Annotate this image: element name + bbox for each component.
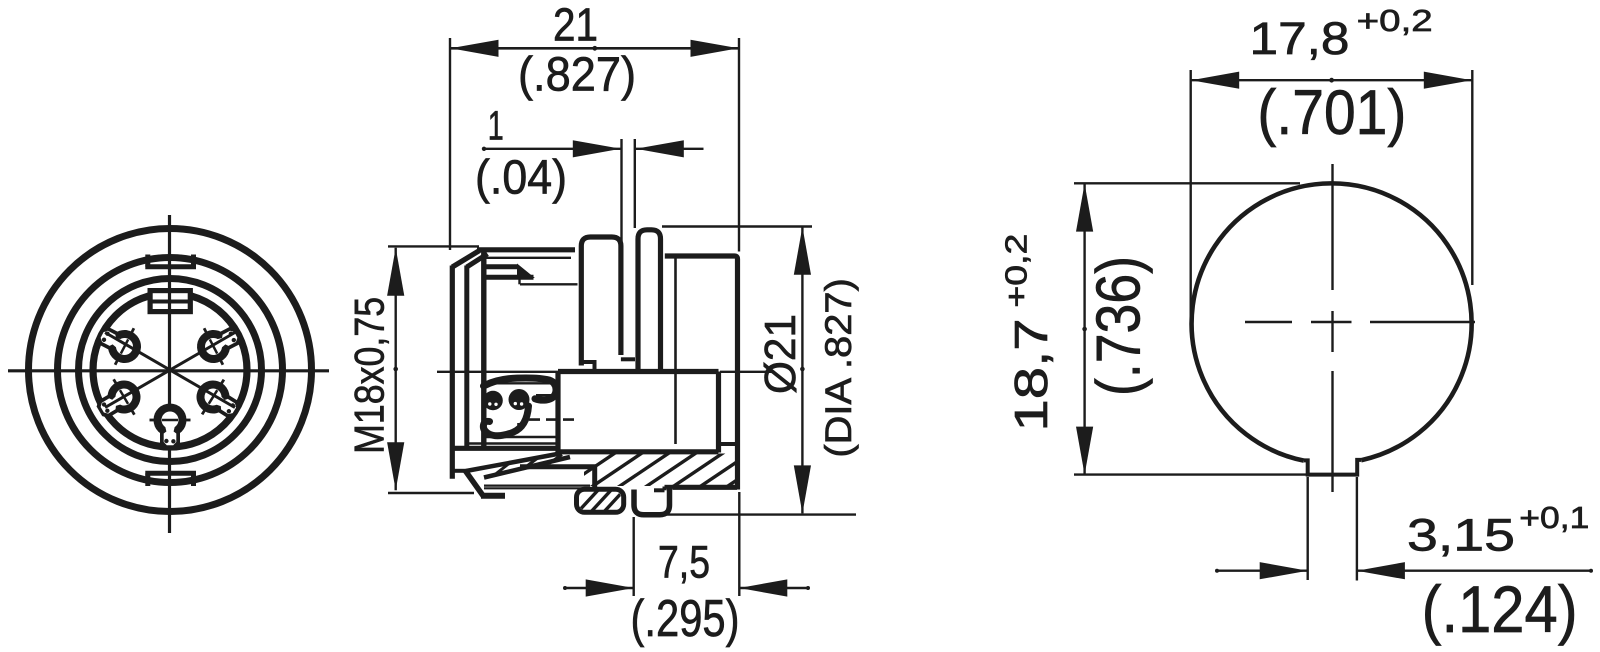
diagonal centerline through pins 1-5 (105, 333, 235, 408)
taper hatch 2 (523, 459, 537, 470)
carrier top edge (558, 369, 719, 374)
dim O21 arrow bottom (794, 465, 811, 513)
dim 21 arrow left (451, 40, 499, 57)
hatched solder tab (577, 489, 624, 512)
cutout vertical centerline upper (1331, 164, 1333, 290)
cutout horizontal centerline center (1311, 321, 1352, 323)
shield ring circle (58, 258, 283, 483)
shell lower edge (520, 464, 597, 469)
dim 1 leader dot (482, 147, 486, 151)
shell lower edge drop (592, 467, 597, 490)
svg-text:(.124): (.124) (1422, 572, 1578, 646)
dim 1 leader left (484, 148, 621, 150)
sleeve left edge (464, 266, 469, 447)
dim 3,15 dot right (1589, 569, 1593, 573)
solder cup 2 (509, 389, 530, 410)
svg-text:18,7: 18,7 (1005, 319, 1057, 432)
svg-text:(.295): (.295) (631, 590, 740, 648)
shroud inner step vertical (663, 487, 667, 491)
dim 3,15 leader right (1358, 570, 1592, 572)
outer housing circle (29, 229, 312, 512)
flange bottom edge (673, 485, 738, 490)
inner key slot rectangle (150, 291, 190, 312)
dim 18,7 arrow top (1076, 184, 1093, 232)
dim 3,15 extension left (1306, 477, 1308, 580)
svg-text:M18x0,75: M18x0,75 (346, 297, 393, 454)
dim 21 arrow right (691, 40, 739, 57)
svg-text:(.701): (.701) (1257, 78, 1406, 148)
shell bottom chamfer (466, 471, 485, 497)
dim 3,15 dot left (1215, 569, 1219, 573)
middle view centerline right segment (720, 371, 772, 373)
dim M18 extension top (388, 245, 479, 247)
pin 2 (lower left) (89, 371, 149, 429)
contact vertical dash (517, 423, 520, 437)
threaded barrel outline (665, 256, 738, 490)
svg-text:(.04): (.04) (475, 152, 567, 205)
inner wall (481, 250, 486, 449)
left view horizontal centerline (8, 369, 329, 372)
inner sleeve step upper (486, 264, 518, 269)
contact axis dash-dot (529, 418, 580, 421)
dim O21 extension bottom (660, 513, 856, 515)
barrel inner bore line (674, 259, 677, 445)
shroud inner line (654, 488, 665, 492)
solder shroud U profile (634, 488, 670, 515)
solder cup 1 (483, 391, 503, 411)
dim 18,7 extension bottom (1074, 473, 1307, 475)
inner sleeve step lower (486, 275, 533, 280)
cutout horizontal centerline left (1245, 321, 1292, 323)
groove floor between disks (621, 357, 635, 361)
dim 7,5 arrow left (586, 579, 634, 596)
carrier bottom edge (556, 449, 719, 454)
cutout horizontal centerline right (1370, 321, 1475, 323)
svg-text:1: 1 (488, 103, 504, 149)
svg-text:Ø21: Ø21 (756, 314, 805, 394)
dim O21 line (801, 227, 803, 514)
dim O21 midpoint dot (800, 367, 805, 372)
taper line lower (484, 457, 570, 478)
pin 3 (bottom) (150, 404, 191, 449)
dim 17,8 arrow right (1424, 72, 1472, 89)
shell top-left chamfer (452, 251, 479, 268)
carrier left wall (555, 372, 560, 454)
dim 1 arrow right (636, 140, 684, 157)
middle view centerline left segment (437, 371, 558, 373)
dim 21 line (450, 47, 739, 50)
gasket line lower (484, 487, 590, 489)
sleeve top chamfer (467, 254, 488, 267)
svg-text:21: 21 (553, 0, 598, 51)
barrel inner step (719, 442, 738, 446)
svg-text:(.736): (.736) (1085, 256, 1154, 396)
dim 1 extension left (620, 139, 622, 241)
contact hidden dash (536, 394, 551, 397)
carrier right wall (716, 372, 721, 453)
insulator circle (79, 279, 262, 462)
shell bottom step (451, 469, 467, 473)
pin field circle (93, 293, 247, 447)
cutout circle (1192, 183, 1472, 460)
svg-text:(DIA .827): (DIA .827) (818, 278, 859, 458)
svg-text:17,8: 17,8 (1250, 13, 1350, 64)
dim 21 midpoint dot (592, 46, 597, 51)
solder lug upper curve (484, 378, 557, 400)
dim 7,5 arrow right (739, 579, 787, 596)
cutout vertical centerline lower (1331, 371, 1333, 492)
dim 18,7 extension top (1074, 182, 1300, 184)
svg-text:+0,1: +0,1 (1519, 500, 1589, 535)
dim 18,7 midpoint dot (1082, 327, 1087, 332)
dim 7,5 leader right (740, 587, 808, 589)
diagonal centerline through pins 2-4 (105, 333, 235, 408)
dim M18 extension bottom (388, 492, 474, 494)
svg-text:(.827): (.827) (518, 48, 636, 101)
dim 17,8 extension left (1189, 70, 1191, 325)
dim 17,8 extension right (1471, 70, 1473, 285)
disk 1 foot step (581, 362, 594, 371)
taper hatch 1 (495, 464, 509, 475)
dim 7,5 dot left (563, 586, 567, 590)
cutout notch (1304, 460, 1361, 475)
dim 7,5 leader left (565, 587, 633, 589)
top keyway tab (145, 255, 150, 267)
cavity thin line mid (484, 436, 556, 438)
svg-text:+0,2: +0,2 (999, 234, 1034, 308)
dim 3,15 extension right (1356, 477, 1358, 581)
flange disk 2 (O21) (638, 230, 661, 371)
dim 3,15 leader left (1217, 570, 1307, 572)
sleeve step edge (518, 277, 520, 284)
dim O21 arrow top (794, 227, 811, 275)
pin 5 (lower right) (188, 371, 248, 430)
taper line upper (466, 454, 560, 472)
gasket line upper (484, 485, 590, 487)
left view vertical centerline (168, 215, 171, 533)
dim 18,7 arrow bottom (1076, 427, 1093, 475)
dim M18 arrow top (387, 248, 404, 296)
svg-text:3,15: 3,15 (1407, 510, 1515, 561)
pin 1 (upper left) (90, 315, 149, 372)
dim M18 line (395, 248, 397, 490)
dim 17,8 line (1191, 79, 1473, 81)
dim 7,5 dot right (806, 586, 810, 590)
flange disk 1 (581, 237, 621, 366)
shell crimp foot (481, 493, 505, 499)
sleeve wedge (518, 265, 534, 278)
sleeve inner line (520, 283, 578, 285)
solder lug lower curve (483, 406, 528, 436)
cavity thin line upper (486, 382, 553, 384)
dim 21 extension right (738, 38, 740, 252)
dim 18,7 line (1083, 183, 1085, 475)
dim 3,15 arrow right (1357, 562, 1405, 579)
shroud inner step horizontal (665, 485, 674, 489)
dim 17,8 arrow left (1191, 72, 1239, 89)
bottom keyway tab (145, 473, 150, 486)
shell outer left edge (450, 266, 455, 479)
svg-text:+0,2: +0,2 (1357, 3, 1433, 38)
shell top edge (477, 247, 575, 252)
dim O21 extension top (662, 225, 812, 227)
svg-text:7,5: 7,5 (658, 537, 710, 588)
dim M18 arrow bottom (387, 442, 404, 490)
dim 1 leader right (636, 148, 704, 150)
dim 7,5 extension right (738, 492, 740, 596)
dim 17,8 midpoint dot (1329, 78, 1334, 83)
dim 1 arrow left (573, 140, 621, 157)
taper hatch 3 (549, 455, 562, 464)
dim 21 extension left (449, 38, 451, 250)
cavity thin line lower (467, 442, 556, 444)
dim 3,15 arrow left (1260, 562, 1308, 579)
thread root line (484, 257, 571, 259)
dim 1 extension right (634, 139, 636, 228)
dim M18 midpoint dot (393, 367, 398, 372)
cutout vertical centerline center (1331, 311, 1333, 352)
cavity bottom edge (shell) (450, 446, 559, 451)
pin 4 (upper right) (189, 315, 248, 372)
dim 7,5 extension left (633, 517, 635, 596)
